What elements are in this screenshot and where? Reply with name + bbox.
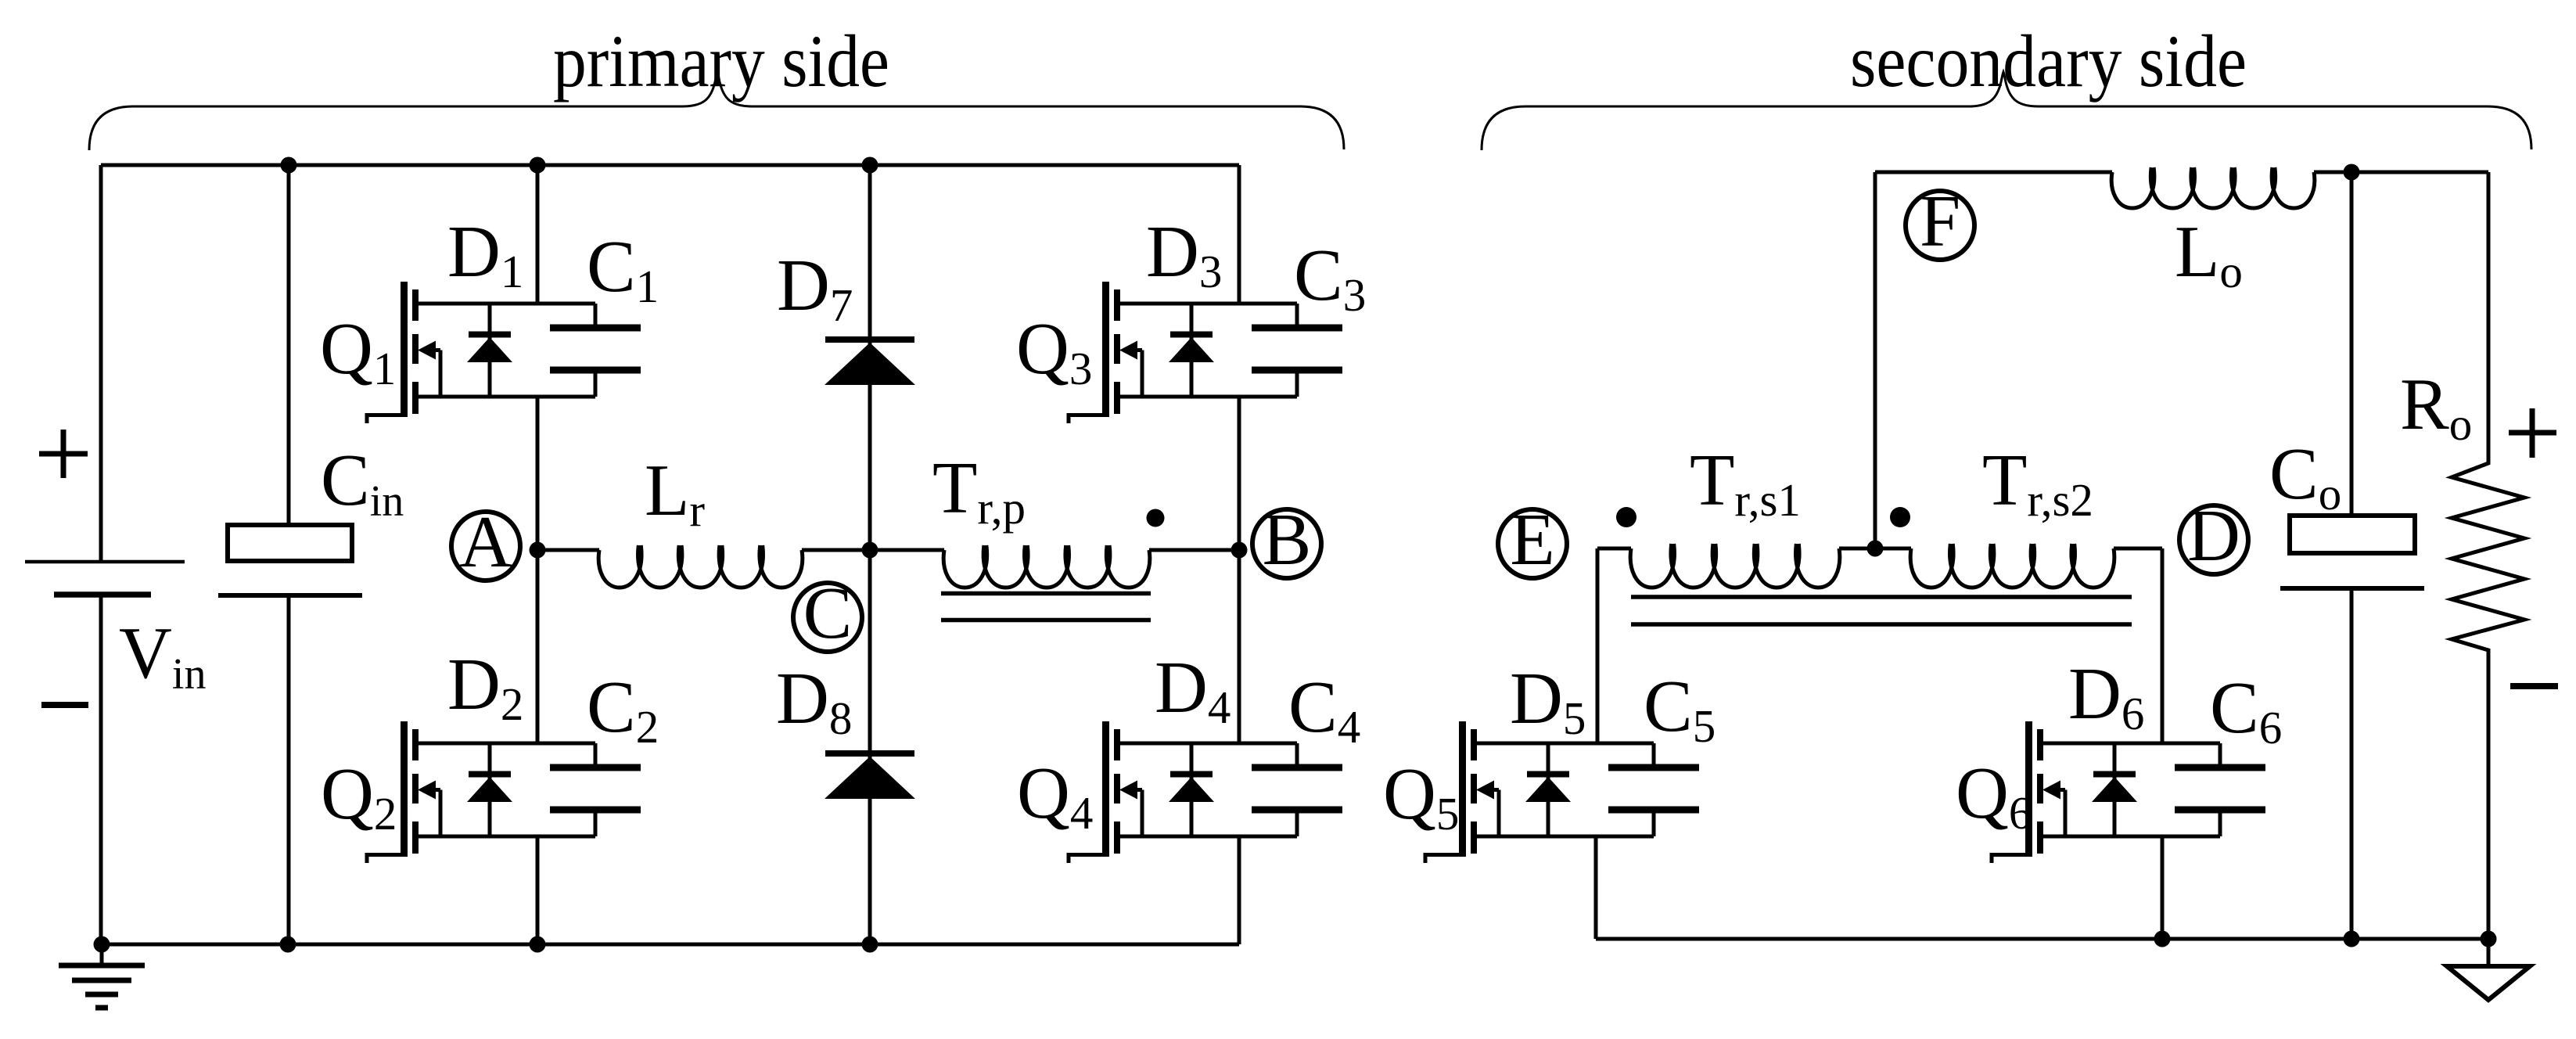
junction: top rail / D7 — [862, 157, 878, 174]
diode D7 — [825, 340, 915, 385]
transformer primary winding Tr,p — [943, 545, 1150, 588]
junction: top rail / Q1 — [530, 157, 546, 174]
ground (primary, earth symbol) — [59, 944, 145, 1008]
junction: bottom rail / Ro — [2481, 931, 2497, 947]
wire: center tap segment — [1839, 547, 1911, 551]
junction: bottom rail / Cin — [280, 937, 296, 953]
wire: secondary bottom rail — [1596, 937, 2488, 941]
wire: F leg (center tap riser) — [1874, 172, 1877, 549]
capacitor Co — [2280, 172, 2424, 939]
svg-text:A: A — [459, 502, 512, 583]
junction: top rail / Co — [2344, 164, 2360, 181]
node A — [451, 502, 520, 583]
transistor Q6 (with body diode D6) — [1990, 721, 2221, 863]
transistor Q5 (with body diode D5) — [1424, 721, 1654, 863]
inductor Lo — [2111, 167, 2315, 208]
junction: bottom rail / D8 — [862, 937, 878, 953]
wire: Q1 drain leg — [536, 165, 540, 304]
transformer core (primary) — [941, 594, 1151, 620]
plus sign (output) — [2509, 408, 2556, 458]
transformer secondary winding Tr,s1 — [1630, 544, 1840, 588]
junction: center tap — [1867, 541, 1884, 557]
junction: node A — [530, 542, 546, 559]
capacitor C6 — [2175, 743, 2265, 836]
polarity dot Tr,p — [1147, 509, 1165, 527]
diode D8 — [825, 753, 915, 799]
wire: E leg (Tr,s1 to Q5 drain) — [1596, 548, 1600, 743]
polarity dot Tr,s2 — [1890, 507, 1910, 527]
junction: top rail / Cin — [281, 157, 297, 174]
junction: bottom rail / Q6 — [2154, 931, 2171, 947]
plus sign (Vin) — [39, 430, 88, 478]
transformer secondary winding Tr,s2 — [1910, 544, 2114, 588]
svg-text:F: F — [1920, 181, 1960, 262]
wire: node A to Lr — [537, 548, 599, 552]
wire: node A to Q2 drain — [536, 550, 540, 743]
wire: Q2 source leg — [536, 836, 540, 944]
wire: Tr,s1 left stub — [1597, 547, 1631, 551]
svg-text:D: D — [2187, 495, 2240, 577]
transistor Q4 (with body diode D4) — [1067, 721, 1298, 863]
wire: Q6 source leg — [2161, 836, 2165, 939]
node C — [793, 573, 862, 654]
node D — [2179, 495, 2248, 577]
wire: D leg (Tr,s2 to Q6 drain) — [2161, 548, 2165, 743]
junction: node C — [862, 542, 878, 559]
wire: primary left rail (Vin branch) — [99, 165, 103, 944]
capacitor Cin — [218, 165, 362, 944]
wire: D7 branch (top rail to node C) — [868, 165, 872, 550]
minus sign (output) — [2510, 683, 2558, 689]
battery Vin — [25, 562, 185, 595]
wire: D8 branch (node C to bottom rail) — [868, 550, 872, 944]
wire: Tr,s2 right stub — [2114, 547, 2162, 551]
wire: primary right leg (Q3/Q4 branch) — [1238, 165, 1241, 944]
wire: Tr,p to node B — [1149, 548, 1239, 552]
wire: Q1 source leg to node A — [536, 397, 540, 550]
wire: Lr to node C — [802, 548, 944, 552]
minus sign (Vin) — [41, 702, 88, 708]
wire: primary bottom rail — [101, 943, 1239, 947]
ground (secondary, chassis triangle) — [2447, 939, 2530, 1000]
node F — [1906, 181, 1974, 262]
resistor Ro — [2452, 172, 2524, 939]
node B — [1252, 499, 1321, 581]
capacitor C4 — [1252, 743, 1342, 836]
wire: Q5 source leg — [1594, 836, 1598, 939]
svg-text:B: B — [1263, 499, 1312, 581]
inductor Lr — [598, 545, 803, 588]
junction: node B — [1231, 542, 1248, 559]
node E — [1498, 499, 1567, 581]
svg-text:primary side: primary side — [553, 20, 889, 102]
junction: bottom rail / Vin — [94, 937, 110, 953]
svg-text:E: E — [1510, 499, 1554, 581]
capacitor C3 — [1252, 304, 1342, 397]
svg-text:secondary side: secondary side — [1850, 20, 2247, 102]
junction: bottom rail / Co — [2344, 931, 2360, 947]
junction: bottom rail / Q2 — [530, 937, 546, 953]
transformer core (secondary) — [1631, 597, 2132, 624]
transistor Q2 (with body diode D2) — [365, 721, 596, 863]
capacitor C1 — [550, 304, 641, 397]
transistor Q1 (with body diode D1) — [365, 282, 596, 423]
wire: primary top rail — [101, 164, 1239, 167]
capacitor C5 — [1608, 743, 1699, 836]
brace: secondary side — [1482, 72, 2531, 150]
capacitor C2 — [550, 743, 641, 836]
wire: secondary top rail (F to Lo to Ro) — [1875, 171, 2488, 174]
transistor Q3 (with body diode D3) — [1067, 282, 1298, 423]
polarity dot Tr,s1 — [1616, 507, 1636, 527]
brace: primary side — [89, 72, 1344, 150]
svg-text:C: C — [803, 573, 853, 654]
